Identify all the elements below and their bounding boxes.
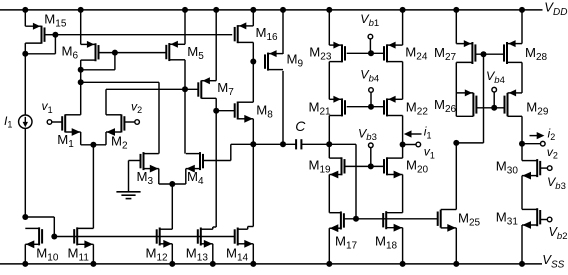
wire M15 source to VDD: [24, 10, 26, 26]
node M1 drain junction: [78, 79, 84, 85]
svg-text:M24: M24: [405, 45, 428, 63]
wire M24 source to VDD: [402, 10, 404, 45]
wire M20 source to M18 drain: [402, 175, 404, 213]
wire VDD rail: [0, 9, 543, 11]
wire M19 source to M17 drain: [328, 175, 330, 213]
svg-text:M11: M11: [68, 245, 90, 263]
transistor M16: [235, 22, 278, 43]
wire M26/M29 gate: [476, 107, 504, 109]
node M9 drain junction: [280, 141, 286, 147]
svg-text:M4: M4: [187, 169, 204, 187]
wire M25 drain up: [455, 143, 457, 210]
svg-text:M25: M25: [458, 210, 481, 228]
wire jog to M13 drain: [213, 226, 216, 228]
svg-text:i1: i1: [424, 125, 432, 141]
node compensation node A: [250, 141, 256, 147]
svg-text:M12: M12: [146, 245, 169, 263]
wire M27 source to VDD: [455, 10, 457, 44]
wire tail to M11 drain: [92, 145, 94, 229]
wire I1 top: [24, 54, 26, 115]
wire M5 drain column: [184, 60, 186, 154]
node M3/M4 tail junction: [169, 181, 175, 187]
svg-text:M15: M15: [44, 11, 67, 29]
node cascode node B: [326, 141, 332, 147]
wire M16 drain column: [252, 42, 254, 102]
wire M5 source to VDD: [184, 10, 186, 44]
svg-text:M9: M9: [287, 52, 304, 70]
wire M15/M16 gate bus: [55, 34, 232, 36]
wire jog to M14 drain: [248, 226, 254, 228]
wire I1 bottom: [24, 128, 26, 217]
wire M7 source to VDD: [215, 10, 217, 81]
wire M10 source to VSS: [24, 244, 26, 264]
wire M15 drain node: [24, 43, 26, 54]
transistor M27: [434, 40, 475, 64]
transistor M8: [235, 102, 274, 123]
node Vb3 junction: [368, 163, 374, 169]
transistor M25: [438, 210, 481, 232]
wire M17/M18/M25 gate: [344, 218, 437, 220]
wire M30 source to M31 drain: [521, 176, 523, 210]
terminal Vb4: [369, 88, 374, 93]
svg-text:M28: M28: [525, 45, 548, 63]
transistor M15: [25, 11, 67, 43]
current arrow i2: [530, 135, 542, 137]
svg-text:i2: i2: [548, 126, 556, 142]
node M10 drain junction: [22, 214, 28, 220]
transistor M9: [265, 50, 304, 71]
transistor M2: [106, 114, 128, 151]
svg-text:Vb2: Vb2: [549, 225, 568, 242]
capacitor C: [295, 139, 297, 149]
wire M18 source to VSS: [402, 228, 404, 264]
wire M17 source to VSS: [328, 228, 330, 264]
transistor M30: [496, 158, 548, 179]
node output node v1: [400, 142, 406, 148]
wire M13 source to VSS: [212, 244, 214, 264]
transistor M22: [384, 96, 428, 118]
transistor M4: [186, 152, 204, 187]
svg-text:M19: M19: [309, 158, 332, 176]
current source I1: [19, 115, 32, 128]
wire M23/M24 gate: [347, 52, 384, 54]
terminal Vb3: [369, 143, 374, 148]
wire node v2 to M30 drain: [521, 144, 523, 161]
node M15 gate junction: [52, 32, 58, 38]
node Vb1 junction: [368, 50, 374, 56]
wire M12 source to VSS: [171, 244, 173, 264]
svg-text:M16: M16: [256, 25, 279, 43]
svg-text:M17: M17: [335, 234, 358, 252]
svg-text:M2: M2: [111, 134, 128, 152]
transistor M7: [198, 77, 234, 98]
svg-text:v1: v1: [42, 99, 53, 115]
svg-text:Vb4: Vb4: [486, 69, 505, 86]
wire M23 drain to M21 source: [328, 62, 330, 100]
terminal v1: [47, 120, 52, 125]
svg-text:M29: M29: [526, 100, 549, 118]
svg-text:v2: v2: [131, 99, 142, 115]
transistor M1: [57, 114, 80, 150]
wire M14 drain up: [252, 144, 254, 226]
wire M3/M4 tail: [158, 169, 160, 184]
svg-text:M8: M8: [256, 103, 273, 121]
terminal Vb1: [368, 34, 373, 39]
node M6 drain junction: [78, 67, 84, 73]
transistor M12: [146, 228, 173, 264]
node Vb4 junction: [368, 104, 374, 110]
svg-text:v1: v1: [424, 145, 435, 161]
terminal v1 output: [403, 144, 416, 146]
svg-text:M30: M30: [496, 158, 519, 176]
node tail junction: [90, 142, 96, 148]
wire M27/M28 gate: [475, 53, 504, 55]
wire M28 drain to M29 source: [521, 62, 523, 93]
wire M24 drain to M22 source: [402, 62, 404, 100]
wire M3 gate to ground: [129, 160, 141, 162]
transistor M13: [186, 228, 213, 264]
wire M5/M6 gate: [99, 52, 167, 54]
svg-text:M14: M14: [226, 245, 249, 263]
transistor M17: [329, 211, 357, 251]
wire M21 drain down: [328, 116, 330, 145]
transistor M20: [384, 157, 429, 178]
wire M23 source to VDD: [328, 10, 330, 45]
svg-text:M5: M5: [187, 44, 204, 62]
wire M9 source to VDD: [282, 10, 284, 54]
svg-text:Vb3: Vb3: [547, 175, 566, 192]
svg-text:M13: M13: [186, 245, 209, 263]
wire M16 source to VDD: [252, 10, 254, 26]
node M5/M6 gate junction: [112, 50, 118, 56]
transistor M23: [309, 42, 345, 63]
wire node B to M19 drain: [328, 144, 330, 158]
wire M4 gate step: [203, 160, 231, 162]
svg-text:Vb4: Vb4: [360, 68, 379, 85]
wire differential pair tail: [80, 132, 82, 145]
transistor M3: [137, 152, 159, 187]
terminal v2 output: [522, 143, 541, 145]
transistor M6: [62, 41, 99, 62]
ground: [116, 191, 140, 193]
current arrow i1: [407, 133, 422, 135]
wire node B step to mirror gates: [329, 143, 356, 145]
transistor M31: [496, 208, 548, 229]
wire M6 source to VDD: [80, 10, 82, 45]
svg-text:I1: I1: [4, 114, 12, 130]
wire node v1 to M20 drain: [402, 145, 404, 159]
svg-text:M10: M10: [36, 245, 59, 263]
transistor M19: [309, 157, 345, 178]
node M9 gate junction: [250, 59, 256, 65]
transistor M10: [25, 227, 59, 263]
wire M8 source down: [252, 119, 254, 145]
node Vb4 right junction: [491, 105, 497, 111]
terminal Vb3 right: [547, 166, 552, 171]
node M25/M26 drain junction: [453, 140, 459, 146]
wire M7 drain column: [215, 98, 217, 227]
svg-text:M6: M6: [62, 44, 79, 62]
node M10 gate junction: [51, 234, 57, 240]
svg-text:M27: M27: [434, 45, 457, 63]
wire NMOS mirror gate bus: [54, 236, 234, 238]
wire M29 drain down: [521, 116, 523, 143]
terminal Vb4 right: [492, 87, 497, 92]
wire VSS rail: [0, 263, 542, 265]
wire M26 source to M27 drain: [455, 62, 457, 116]
terminal v2: [135, 120, 140, 125]
svg-text:v2: v2: [547, 145, 558, 161]
transistor M26: [434, 89, 476, 116]
transistor M24: [384, 42, 428, 63]
wire M31 source to VSS: [521, 225, 523, 264]
svg-text:M18: M18: [375, 234, 398, 252]
node M7 drain junction: [213, 108, 219, 114]
svg-text:M31: M31: [496, 209, 519, 227]
node M27/M28 gate junction: [481, 51, 487, 57]
wire M25 source to VSS: [455, 228, 457, 264]
wire tail to M12 drain: [171, 184, 173, 229]
wire M9 drain column: [282, 71, 284, 144]
wire M14 source to VSS: [252, 244, 254, 264]
wire compensation wire left: [231, 143, 296, 145]
wire M21/M22 gate: [347, 106, 384, 108]
transistor M5: [166, 41, 204, 62]
terminal Vb2: [547, 217, 552, 222]
wire M1 drain to M3 drain: [81, 81, 159, 83]
svg-text:Vb1: Vb1: [360, 12, 379, 29]
wire M2 drain step: [105, 89, 107, 115]
wire M6 drain column: [80, 60, 82, 115]
wire M11 source to VSS: [92, 244, 94, 264]
svg-text:M23: M23: [309, 45, 332, 63]
wire M22 drain down: [402, 116, 404, 145]
node output node v2: [519, 141, 525, 147]
transistor M28: [504, 40, 548, 64]
wire M15 diode loop: [25, 53, 55, 55]
svg-text:M21: M21: [309, 100, 332, 118]
node M5 drain junction: [182, 86, 188, 92]
svg-text:Vb3: Vb3: [358, 126, 377, 143]
wire M19/M20 gate: [345, 165, 385, 167]
svg-text:VDD: VDD: [544, 0, 567, 18]
wire compensation wire right: [301, 143, 329, 145]
svg-text:M7: M7: [217, 80, 234, 98]
wire M6 diode loop: [81, 69, 115, 71]
node M17/M18 gate junction: [353, 216, 359, 222]
transistor M18: [375, 211, 403, 251]
wire M28 source to VDD: [521, 10, 523, 44]
svg-text:C: C: [295, 118, 306, 134]
svg-text:VSS: VSS: [542, 252, 564, 270]
svg-text:M26: M26: [434, 97, 457, 115]
transistor M11: [68, 227, 94, 263]
transistor M29: [505, 89, 549, 117]
svg-text:M22: M22: [406, 100, 429, 118]
svg-text:M20: M20: [406, 158, 429, 176]
wire M10 diode loop: [25, 216, 54, 218]
wire M8 gate: [216, 110, 235, 112]
wire M27 gate feedback: [483, 54, 485, 143]
transistor M14: [226, 228, 253, 264]
transistor M21: [309, 96, 346, 118]
